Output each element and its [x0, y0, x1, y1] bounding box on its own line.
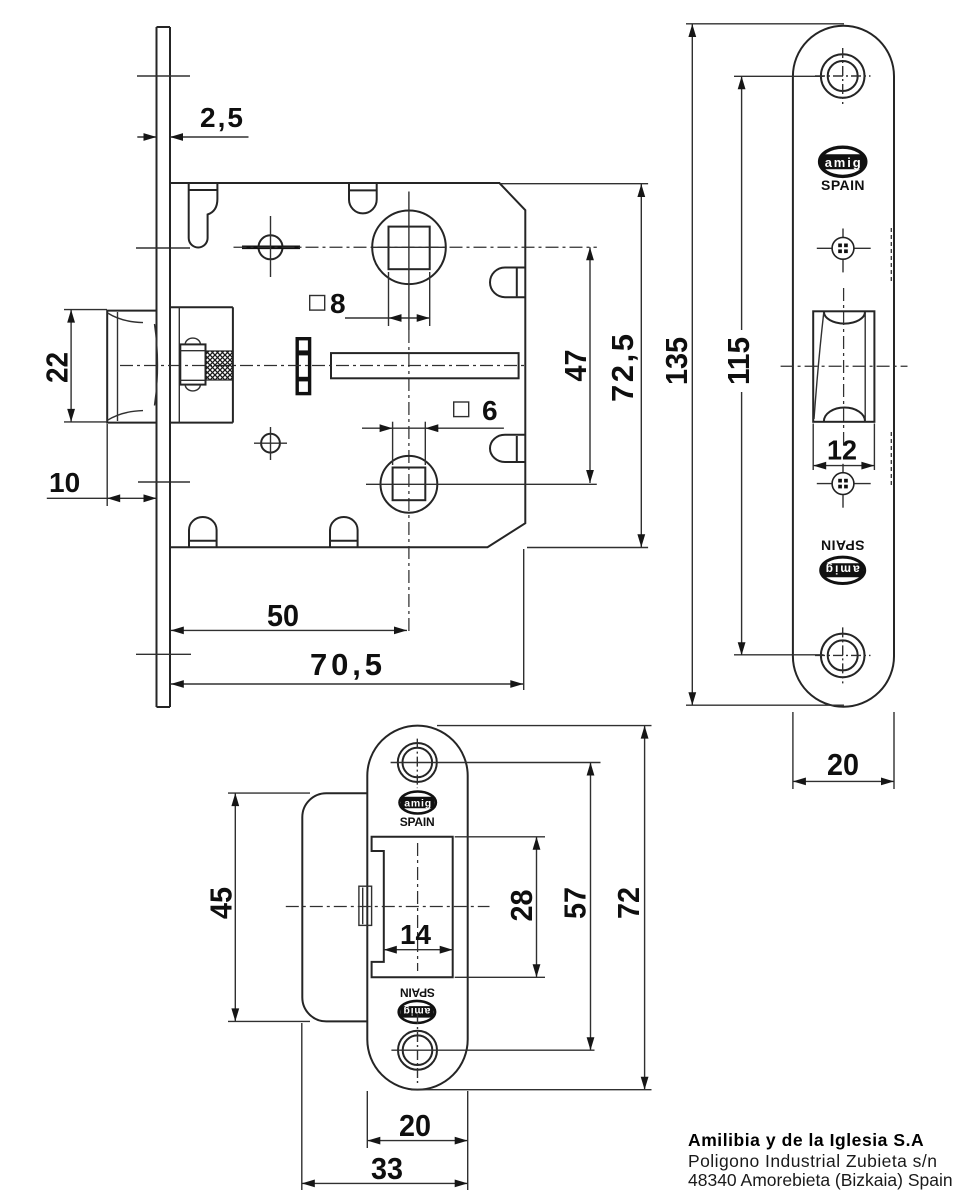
svg-text:28: 28	[504, 890, 539, 922]
dim 20 extension lines	[366, 1091, 368, 1148]
upper spindle vertical centreline	[408, 192, 410, 331]
alignment tick upper-middle	[136, 247, 190, 249]
small fixing hole lower	[817, 464, 871, 508]
dim 70,5 right extension	[523, 549, 525, 690]
svg-text:47: 47	[558, 350, 593, 382]
upper spindle square	[389, 227, 430, 270]
dim 72,5 line	[637, 184, 645, 547]
dim 6 line	[362, 427, 504, 429]
dim 45 line	[231, 793, 239, 1021]
top extension line 135	[686, 23, 844, 25]
svg-text:14: 14	[400, 919, 431, 950]
dim 12 extension lines	[812, 424, 814, 471]
body top edge extension	[501, 183, 648, 185]
svg-text:48340 Amorebieta (Bizkaia) Spa: 48340 Amorebieta (Bizkaia) Spain	[688, 1170, 953, 1190]
latch curved face on strip	[155, 324, 158, 406]
bottom arch middle	[330, 517, 358, 547]
svg-text:Amilibia y de la Iglesia S.A: Amilibia y de la Iglesia S.A	[688, 1130, 924, 1150]
horizontal centreline through upper spindle	[234, 246, 597, 248]
dim 50 line	[171, 627, 407, 635]
dim 12 line	[813, 462, 874, 470]
dim 6 square symbol	[454, 402, 469, 417]
dim 72 bottom extension	[411, 1089, 652, 1091]
svg-text:115: 115	[721, 337, 756, 385]
dim 45 extension lines	[228, 792, 310, 794]
upper pilot hole crosshair circle	[242, 216, 300, 277]
bottom arch left	[189, 517, 217, 547]
strike vertical centreline	[417, 843, 419, 971]
dim 10 line	[47, 497, 157, 499]
svg-text:SPAIN: SPAIN	[400, 815, 435, 829]
keyhole cutout	[189, 184, 218, 248]
forend horizontal centreline	[781, 365, 908, 367]
svg-text:8: 8	[330, 288, 346, 319]
body bottom edge extension	[527, 547, 648, 549]
svg-text:20: 20	[827, 747, 859, 782]
svg-text:70,5: 70,5	[310, 647, 382, 682]
dim 28 line	[533, 837, 541, 978]
svg-text:72,5: 72,5	[605, 334, 640, 402]
svg-text:135: 135	[659, 337, 694, 385]
svg-text:SPAIN: SPAIN	[821, 177, 865, 193]
lower spindle horizontal centreline	[366, 483, 597, 485]
svg-text:SPAIN: SPAIN	[821, 538, 865, 554]
svg-text:amig: amig	[404, 798, 431, 810]
svg-text:57: 57	[558, 887, 593, 919]
adjuster nut	[180, 338, 205, 391]
dim 20 line	[793, 778, 894, 786]
upper spindle horizontal crosshair	[373, 246, 446, 248]
forend plate outline	[793, 26, 894, 707]
svg-text:6: 6	[482, 395, 498, 426]
right D-notch lower	[490, 435, 525, 462]
svg-text:SPAIN: SPAIN	[400, 985, 435, 999]
dim 33 extension line	[301, 1023, 303, 1190]
amig logo inverted	[821, 557, 865, 583]
svg-text:10: 10	[49, 467, 80, 498]
dim 28 extension lines	[455, 836, 545, 838]
dim 135 line	[688, 24, 696, 705]
latch cutout	[813, 311, 874, 422]
threaded screw hatch	[206, 351, 233, 380]
dim 47 line	[586, 247, 594, 483]
dim 22 extension lines	[64, 309, 107, 311]
dim 20 extension lines	[792, 712, 794, 789]
strike bottom screw hole	[391, 1014, 594, 1086]
latch housing box	[170, 307, 233, 422]
bottom hole extension line 115	[734, 654, 824, 656]
dim 6 extension lines	[392, 422, 394, 465]
top notch arch	[349, 184, 377, 214]
lower spindle circle	[381, 456, 438, 513]
dim 33 line	[302, 1180, 468, 1188]
amig logo top	[820, 147, 866, 176]
svg-text:45: 45	[204, 887, 239, 919]
strike amig logo top	[400, 792, 436, 814]
svg-text:20: 20	[399, 1108, 431, 1143]
svg-text:amig: amig	[825, 155, 861, 170]
right D-notch upper	[490, 268, 525, 298]
top hole extension line 115	[734, 75, 824, 77]
strike amig logo inverted	[399, 1001, 435, 1023]
dim 72 top extension	[437, 725, 652, 727]
dim 10 extension line	[106, 424, 108, 506]
dim 22 line	[70, 310, 72, 422]
main horizontal centreline	[120, 365, 525, 367]
strike horizontal centreline	[286, 906, 490, 908]
dim 72 line	[641, 726, 649, 1090]
svg-text:22: 22	[40, 352, 75, 383]
forend vertical centreline	[843, 288, 845, 445]
lock body outline	[170, 183, 525, 547]
svg-text:33: 33	[371, 1151, 403, 1186]
lower spindle square	[393, 468, 426, 501]
lower crosshair circle	[254, 427, 287, 460]
alignment tick top	[137, 75, 190, 77]
dim 8 line	[345, 317, 430, 319]
dim 70,5 line	[171, 680, 524, 688]
svg-text:amig: amig	[826, 563, 860, 577]
svg-text:12: 12	[827, 435, 857, 466]
alignment tick bottom	[136, 653, 191, 655]
bottom screw hole	[815, 627, 871, 683]
upper spindle follower circle	[372, 211, 446, 285]
strike box outline	[372, 837, 453, 978]
dim 2,5 line	[137, 133, 248, 141]
faceplate strip (side view)	[157, 27, 171, 707]
svg-text:72: 72	[611, 887, 646, 919]
strike plate outline	[367, 726, 467, 1090]
strike top screw hole	[391, 739, 601, 789]
alignment tick lower-middle	[138, 481, 190, 483]
dim 57 line	[587, 763, 595, 1051]
small fixing hole upper	[817, 229, 871, 273]
hidden edge dashes	[890, 228, 892, 282]
vertical centreline down to 50-dim	[408, 330, 410, 634]
bottom extension line 135	[686, 704, 844, 706]
latch head	[107, 311, 156, 423]
svg-text:2,5: 2,5	[200, 102, 243, 133]
spring plate piece	[297, 339, 309, 394]
dim 115 line	[738, 76, 746, 655]
svg-text:Poligono Industrial Zubieta s/: Poligono Industrial Zubieta s/n	[688, 1151, 937, 1171]
strike flange	[302, 793, 367, 1021]
dim 14 line	[384, 946, 453, 954]
lever bar	[331, 353, 519, 378]
svg-text:50: 50	[267, 598, 299, 633]
top screw hole	[815, 48, 871, 104]
dim 20 line	[367, 1137, 467, 1145]
dim 8 square symbol	[310, 296, 325, 311]
strike box tab	[359, 886, 372, 925]
dim 8 extension lines	[388, 272, 390, 326]
